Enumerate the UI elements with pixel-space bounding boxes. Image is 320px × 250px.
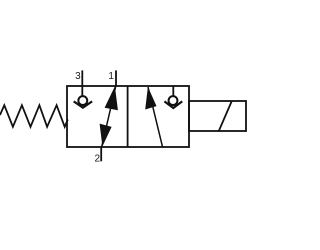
svg-text:2: 2 xyxy=(95,154,101,165)
svg-text:3: 3 xyxy=(75,71,81,82)
svg-text:1: 1 xyxy=(108,71,114,82)
